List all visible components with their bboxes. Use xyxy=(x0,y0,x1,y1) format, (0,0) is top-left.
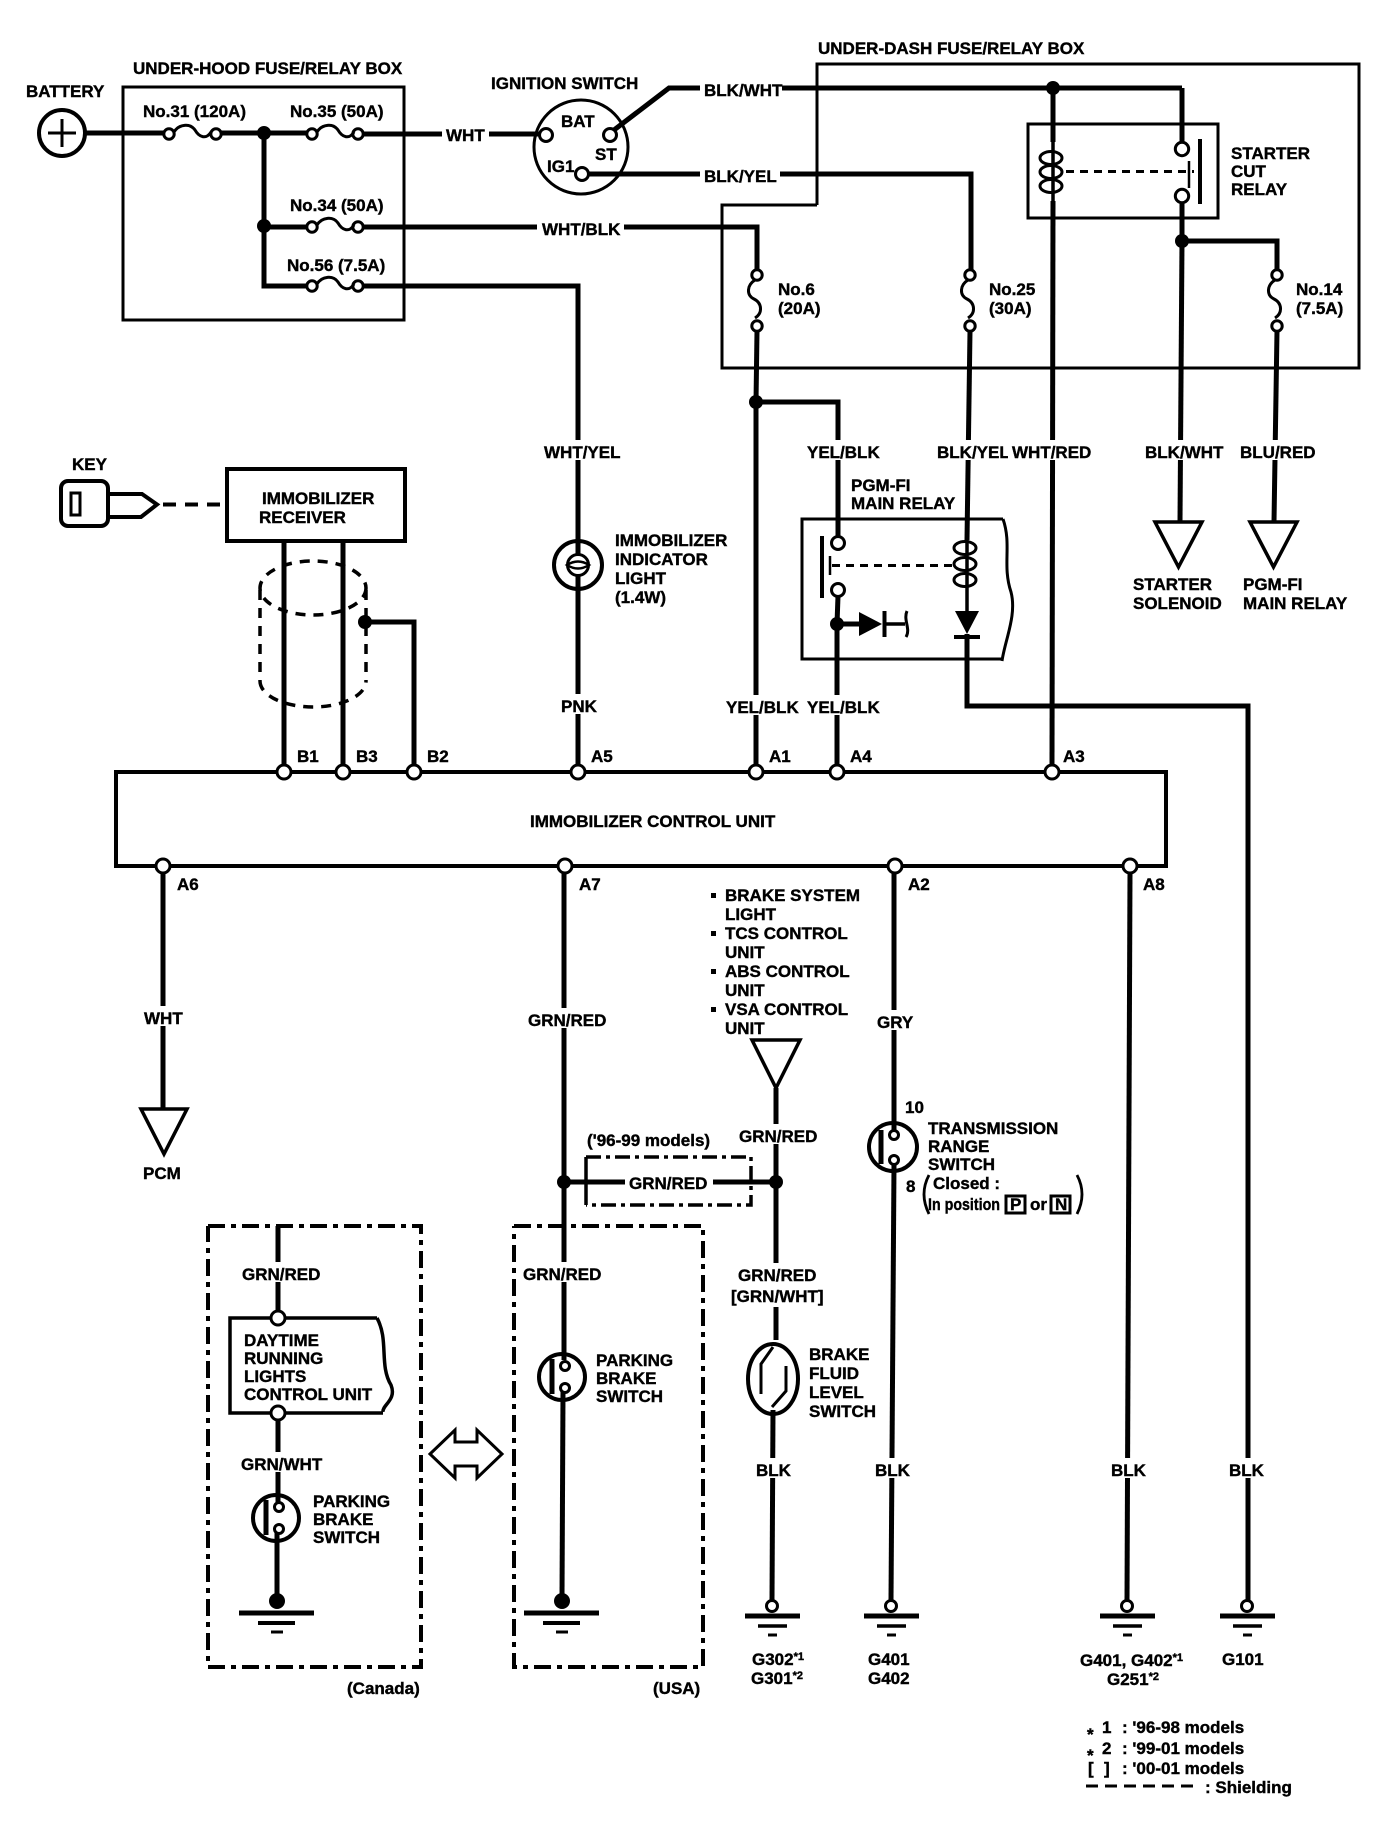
svg-text:PGM-FI: PGM-FI xyxy=(851,476,911,495)
node BLK/WHT junction xyxy=(1046,81,1060,95)
wire branch to PGM-FI relay contact xyxy=(756,402,838,537)
label YEL/BLK mid xyxy=(803,440,880,462)
pin DRL top xyxy=(271,1311,285,1325)
svg-text:WHT/RED: WHT/RED xyxy=(1012,443,1091,462)
svg-text:YEL/BLK: YEL/BLK xyxy=(726,698,799,717)
svg-text:UNIT: UNIT xyxy=(725,943,765,962)
svg-text:BLK/YEL: BLK/YEL xyxy=(937,443,1010,462)
diode D1 xyxy=(837,611,908,637)
node junction fuse35/34 xyxy=(257,126,271,140)
svg-text:10: 10 xyxy=(905,1098,924,1117)
svg-text:ABS CONTROL: ABS CONTROL xyxy=(725,962,850,981)
svg-text:8: 8 xyxy=(906,1177,915,1196)
diode D2 xyxy=(954,611,980,637)
ignition switch xyxy=(491,74,638,194)
wire A7 GRN/RED down xyxy=(562,873,567,1360)
label YEL/BLK A1 xyxy=(722,695,799,717)
canada dashed box xyxy=(208,1226,421,1698)
svg-text:CUT: CUT xyxy=(1231,162,1267,181)
wire PNK light to A5 xyxy=(576,589,581,765)
svg-text:GRN/RED: GRN/RED xyxy=(629,1174,707,1193)
wire B2 shield to control unit xyxy=(365,622,414,765)
svg-text:(USA): (USA) xyxy=(653,1679,700,1698)
pin A4 xyxy=(830,747,872,779)
svg-text:UNIT: UNIT xyxy=(725,981,765,1000)
svg-text:1: 1 xyxy=(1102,1718,1111,1737)
svg-text:PARKING: PARKING xyxy=(313,1492,390,1511)
label BLK/WHT mid xyxy=(1141,440,1224,462)
fuse No.56 (7.5A) xyxy=(287,256,385,291)
svg-text:GRN/RED: GRN/RED xyxy=(523,1265,601,1284)
immobilizer control unit xyxy=(116,772,1166,866)
wire fuse6 down to node xyxy=(756,331,757,402)
PCM arrow xyxy=(141,1109,187,1183)
svg-text:BLK: BLK xyxy=(1229,1461,1265,1480)
svg-text:A8: A8 xyxy=(1143,875,1165,894)
wire fuse14 down to PGM-FI arrow xyxy=(1274,331,1277,522)
terminal BAT xyxy=(540,129,553,142)
pin A1 xyxy=(749,747,791,779)
label BLK 4 xyxy=(1226,1458,1266,1480)
label BLU/RED mid xyxy=(1236,440,1316,462)
svg-text:(7.5A): (7.5A) xyxy=(1296,299,1343,318)
svg-text:G401, G402*1: G401, G402*1 xyxy=(1080,1651,1183,1670)
svg-text:IMMOBILIZER: IMMOBILIZER xyxy=(615,531,727,550)
label GRN/RED [GRN/WHT] xyxy=(728,1263,824,1307)
fuse No.6 (20A) xyxy=(748,270,820,331)
wire junction to fuse34 xyxy=(264,225,307,230)
wire A2 GRY down xyxy=(892,873,897,1131)
wire fuse25 down to PGM-FI coil xyxy=(967,331,970,540)
svg-text:WHT: WHT xyxy=(144,1009,183,1028)
svg-text:LEVEL: LEVEL xyxy=(809,1383,864,1402)
node brake branch xyxy=(769,1175,783,1189)
wire coil down right to G101 run xyxy=(967,634,1248,1600)
node diode junction xyxy=(830,617,844,631)
wire switch to ground canada xyxy=(275,1533,280,1597)
label BLK/YEL top xyxy=(700,164,780,186)
svg-text:WHT: WHT xyxy=(446,126,485,145)
node starter cut output xyxy=(1175,234,1189,248)
immobilizer indicator light xyxy=(554,531,727,607)
immobilizer receiver xyxy=(227,469,405,541)
pin A7 xyxy=(558,859,601,894)
svg-text:No.35 (50A): No.35 (50A) xyxy=(290,102,384,121)
label GRN/RED link xyxy=(625,1171,713,1193)
svg-text:GRN/RED: GRN/RED xyxy=(738,1266,816,1285)
ground G401/G402 xyxy=(864,1601,919,1689)
svg-text:[GRN/WHT]: [GRN/WHT] xyxy=(731,1287,824,1306)
wire arrow to junction down xyxy=(774,1088,779,1340)
starter cut relay coil xyxy=(1040,140,1062,201)
svg-text:FLUID: FLUID xyxy=(809,1364,859,1383)
wire usa switch to ground xyxy=(562,1392,563,1597)
svg-text:*: * xyxy=(1087,1725,1094,1744)
pin B1 xyxy=(277,747,319,779)
pgm-fi relay coil xyxy=(954,540,976,611)
svg-text:SWITCH: SWITCH xyxy=(313,1528,380,1547)
svg-text:GRN/RED: GRN/RED xyxy=(528,1011,606,1030)
svg-text:A6: A6 xyxy=(177,875,199,894)
svg-text:DAYTIME: DAYTIME xyxy=(244,1331,319,1350)
svg-text:B3: B3 xyxy=(356,747,378,766)
label BLK 1 xyxy=(753,1458,793,1480)
wire B1 receiver to control unit xyxy=(282,541,287,765)
svg-text:BRAKE: BRAKE xyxy=(809,1345,869,1364)
svg-text:TCS CONTROL: TCS CONTROL xyxy=(725,924,848,943)
wire B3 receiver to control unit xyxy=(341,541,346,765)
svg-text:G101: G101 xyxy=(1222,1650,1264,1669)
wire A4 node down to control unit xyxy=(835,624,840,765)
label GRN/RED canada xyxy=(238,1262,320,1284)
ground G302/G301 xyxy=(745,1601,804,1689)
svg-text:BAT: BAT xyxy=(561,112,595,131)
ground G401,G402/G251 xyxy=(1080,1601,1183,1690)
svg-text:YEL/BLK: YEL/BLK xyxy=(807,443,880,462)
svg-text:LIGHT: LIGHT xyxy=(725,905,777,924)
svg-text:: '96-98 models: : '96-98 models xyxy=(1122,1718,1244,1737)
svg-text:BRAKE: BRAKE xyxy=(596,1369,656,1388)
wire contact bottom to node xyxy=(837,596,838,624)
svg-text:WHT/YEL: WHT/YEL xyxy=(544,443,621,462)
wire WHT/BLK from fuse34 to under-dash xyxy=(363,227,757,270)
svg-text:RECEIVER: RECEIVER xyxy=(259,508,346,527)
svg-text:No.34 (50A): No.34 (50A) xyxy=(290,196,384,215)
wire DRL to parking brake switch xyxy=(276,1420,281,1503)
pin A8 xyxy=(1123,859,1165,894)
svg-text:(20A): (20A) xyxy=(778,299,821,318)
fuse No.34 (50A) xyxy=(290,196,384,232)
label GRN/RED brake xyxy=(735,1124,817,1146)
wire to starter cut relay coil xyxy=(1051,88,1056,142)
label PNK xyxy=(557,694,599,716)
svg-text:IMMOBILIZER CONTROL UNIT: IMMOBILIZER CONTROL UNIT xyxy=(530,812,776,831)
svg-text:: Shielding: : Shielding xyxy=(1205,1778,1292,1797)
svg-text:STARTER: STARTER xyxy=(1231,144,1310,163)
label WHT xyxy=(442,122,489,145)
label GRN/RED A7 xyxy=(524,1008,606,1030)
daytime running lights control unit xyxy=(230,1318,392,1413)
svg-text:INDICATOR: INDICATOR xyxy=(615,550,708,569)
wire WHT/RED coil bottom down to A3 xyxy=(1052,201,1053,765)
wire BLK/WHT node down to starter solenoid xyxy=(1180,241,1182,522)
brake system arrow xyxy=(752,1040,800,1088)
pin A6 xyxy=(156,859,199,894)
node junction fuse34/56 xyxy=(257,219,271,233)
svg-text:No.14: No.14 xyxy=(1296,280,1343,299)
svg-text:YEL/BLK: YEL/BLK xyxy=(807,698,880,717)
dashed box 96-99 models xyxy=(586,1131,751,1205)
svg-text:RANGE: RANGE xyxy=(928,1137,989,1156)
label WHT/YEL xyxy=(540,440,621,462)
fuse No.14 (7.5A) xyxy=(1268,270,1343,331)
svg-text:UNIT: UNIT xyxy=(725,1019,765,1038)
svg-text:SWITCH: SWITCH xyxy=(596,1387,663,1406)
pgm-fi relay contact xyxy=(822,536,956,598)
node A7 branch xyxy=(557,1175,571,1189)
terminal IG1 xyxy=(576,168,589,181)
svg-text:G402: G402 xyxy=(868,1669,910,1688)
wire fuse31 to junction xyxy=(221,131,264,136)
svg-text:No.31 (120A): No.31 (120A) xyxy=(143,102,246,121)
wire junction down to fuse56 xyxy=(264,226,307,286)
svg-text:A2: A2 xyxy=(908,875,930,894)
svg-text:: '00-01 models: : '00-01 models xyxy=(1122,1759,1244,1778)
node shield connection xyxy=(358,615,372,629)
pin A2 xyxy=(888,859,930,894)
svg-text:2: 2 xyxy=(1102,1739,1111,1758)
parking brake switch canada xyxy=(253,1492,390,1547)
pgm-fi main relay arrow xyxy=(1243,522,1348,613)
svg-text:RELAY: RELAY xyxy=(1231,180,1288,199)
label WHT/BLK xyxy=(537,217,624,239)
wire brake fluid to ground xyxy=(772,1410,773,1600)
svg-text:or: or xyxy=(1030,1195,1047,1214)
svg-text:N: N xyxy=(1055,1195,1067,1214)
brake system list xyxy=(711,886,860,1038)
wire node to fuse No.14 xyxy=(1182,241,1277,270)
wire junction down xyxy=(262,133,267,226)
wire dashed key to receiver xyxy=(163,503,224,507)
fuse No.25 (30A) xyxy=(961,270,1035,331)
fuse No.35 (50A) xyxy=(290,102,384,139)
pin A5 xyxy=(571,747,613,779)
svg-text:('96-99 models): ('96-99 models) xyxy=(587,1131,710,1150)
shielding cylinder xyxy=(260,561,366,707)
ground canada xyxy=(239,1593,314,1632)
svg-text:B2: B2 xyxy=(427,747,449,766)
svg-text:(1.4W): (1.4W) xyxy=(615,588,666,607)
svg-text:A7: A7 xyxy=(579,875,601,894)
svg-text:GRN/RED: GRN/RED xyxy=(242,1265,320,1284)
svg-text:UNDER-DASH FUSE/RELAY BOX: UNDER-DASH FUSE/RELAY BOX xyxy=(818,39,1085,58)
svg-text:VSA CONTROL: VSA CONTROL xyxy=(725,1000,848,1019)
fuse No.31 (120A) xyxy=(143,102,246,139)
svg-text:UNDER-HOOD FUSE/RELAY BOX: UNDER-HOOD FUSE/RELAY BOX xyxy=(133,59,403,78)
wire junction to fuse35 xyxy=(264,131,307,136)
svg-text:PNK: PNK xyxy=(561,697,598,716)
svg-text:BLK: BLK xyxy=(875,1461,911,1480)
svg-text:RUNNING: RUNNING xyxy=(244,1349,323,1368)
legend xyxy=(1086,1718,1292,1797)
svg-text:BLK: BLK xyxy=(756,1461,792,1480)
swap arrow xyxy=(430,1430,502,1478)
wire battery to fuse box xyxy=(85,131,164,136)
svg-text:BATTERY: BATTERY xyxy=(26,82,105,101)
svg-text:In position: In position xyxy=(928,1195,1000,1214)
pin B3 xyxy=(336,747,378,779)
svg-text:SOLENOID: SOLENOID xyxy=(1133,594,1222,613)
svg-text:SWITCH: SWITCH xyxy=(809,1402,876,1421)
starter cut relay contact xyxy=(1066,139,1200,204)
svg-text:G401: G401 xyxy=(868,1650,910,1669)
pgm-fi main relay U2 xyxy=(802,476,1013,661)
svg-text:IG1: IG1 xyxy=(547,157,574,176)
parking brake switch usa xyxy=(539,1351,673,1406)
label BLK/WHT top xyxy=(700,78,783,100)
svg-text:TRANSMISSION: TRANSMISSION xyxy=(928,1119,1058,1138)
svg-text:(Canada): (Canada) xyxy=(347,1679,420,1698)
svg-text:A3: A3 xyxy=(1063,747,1085,766)
transmission range switch xyxy=(869,1098,1082,1214)
svg-text:ST: ST xyxy=(595,145,617,164)
brake fluid level switch xyxy=(748,1344,876,1421)
svg-text:PGM-FI: PGM-FI xyxy=(1243,575,1303,594)
wire A6 to PCM xyxy=(161,873,166,1109)
svg-text:BLK: BLK xyxy=(1111,1461,1147,1480)
label GRY xyxy=(873,1010,915,1032)
label GRN/WHT xyxy=(237,1452,323,1474)
pin B2 xyxy=(407,747,449,779)
svg-text:A5: A5 xyxy=(591,747,613,766)
svg-text:BLK/WHT: BLK/WHT xyxy=(1145,443,1224,462)
label YEL/BLK A4 xyxy=(803,695,880,717)
svg-text:(30A): (30A) xyxy=(989,299,1032,318)
label WHT/RED mid xyxy=(1008,440,1091,462)
wire GRN/RED 96-99 link xyxy=(564,1180,776,1185)
wire BLK/WHT from ST to under-dash xyxy=(614,88,1182,143)
under-hood fuse/relay box xyxy=(123,59,404,320)
svg-text:STARTER: STARTER xyxy=(1133,575,1212,594)
wire fuse35 to ignition BAT xyxy=(363,132,540,137)
svg-text:BLK/YEL: BLK/YEL xyxy=(704,167,777,186)
svg-text:GRN/RED: GRN/RED xyxy=(739,1127,817,1146)
label GRN/RED usa xyxy=(519,1262,601,1284)
starter solenoid arrow xyxy=(1133,522,1222,613)
svg-text:]: ] xyxy=(1104,1759,1110,1778)
svg-text:GRN/WHT: GRN/WHT xyxy=(241,1455,323,1474)
svg-text:A4: A4 xyxy=(850,747,872,766)
svg-text:BLK/WHT: BLK/WHT xyxy=(704,81,783,100)
label WHT A6 xyxy=(140,1006,187,1028)
svg-text:GRY: GRY xyxy=(877,1013,914,1032)
terminal ST xyxy=(604,129,617,142)
svg-text:LIGHTS: LIGHTS xyxy=(244,1367,306,1386)
svg-text:MAIN RELAY: MAIN RELAY xyxy=(851,494,956,513)
label BLK/YEL mid xyxy=(933,440,1010,462)
svg-text:[: [ xyxy=(1088,1759,1094,1778)
svg-text:LIGHT: LIGHT xyxy=(615,569,667,588)
wire A8 down to ground xyxy=(1127,873,1130,1600)
svg-text:No.56 (7.5A): No.56 (7.5A) xyxy=(287,256,385,275)
svg-text:No.25: No.25 xyxy=(989,280,1035,299)
svg-text:IMMOBILIZER: IMMOBILIZER xyxy=(262,489,374,508)
key xyxy=(61,455,157,526)
svg-text:Closed :: Closed : xyxy=(933,1174,1000,1193)
svg-text:MAIN RELAY: MAIN RELAY xyxy=(1243,594,1348,613)
svg-text:KEY: KEY xyxy=(72,455,108,474)
pin A3 xyxy=(1045,747,1085,779)
ground G101 xyxy=(1220,1601,1275,1670)
pin DRL bottom xyxy=(271,1406,285,1420)
node YEL/BLK branch xyxy=(749,395,763,409)
wire contact bottom to node xyxy=(1180,202,1185,241)
svg-text:B1: B1 xyxy=(297,747,319,766)
wire canada GRN/RED down xyxy=(276,1226,281,1311)
svg-text:CONTROL UNIT: CONTROL UNIT xyxy=(244,1385,373,1404)
label BLK 3 xyxy=(1108,1458,1148,1480)
ground usa xyxy=(524,1593,599,1632)
under-dash fuse/relay box xyxy=(722,39,1359,368)
svg-text:WHT/BLK: WHT/BLK xyxy=(542,220,621,239)
svg-text:IGNITION SWITCH: IGNITION SWITCH xyxy=(491,74,638,93)
wire BLK/YEL from IG1 to fuse No.25 xyxy=(588,174,971,270)
wire WHT/YEL fuse56 to indicator light xyxy=(363,286,578,541)
svg-text:SWITCH: SWITCH xyxy=(928,1155,995,1174)
usa dashed box xyxy=(514,1226,703,1698)
starter cut relay U1 xyxy=(1028,124,1310,218)
wire A2 switch to ground xyxy=(891,1164,894,1600)
svg-text:A1: A1 xyxy=(769,747,791,766)
svg-text:BRAKE: BRAKE xyxy=(313,1510,373,1529)
svg-text:PCM: PCM xyxy=(143,1164,181,1183)
wire YEL/BLK node down to A1 xyxy=(754,402,759,765)
svg-text:BRAKE SYSTEM: BRAKE SYSTEM xyxy=(725,886,860,905)
svg-text:: '99-01 models: : '99-01 models xyxy=(1122,1739,1244,1758)
label BLK 2 xyxy=(872,1458,912,1480)
svg-text:P: P xyxy=(1010,1195,1021,1214)
svg-text:PARKING: PARKING xyxy=(596,1351,673,1370)
svg-text:No.6: No.6 xyxy=(778,280,815,299)
svg-text:BLU/RED: BLU/RED xyxy=(1240,443,1316,462)
battery xyxy=(26,82,105,156)
